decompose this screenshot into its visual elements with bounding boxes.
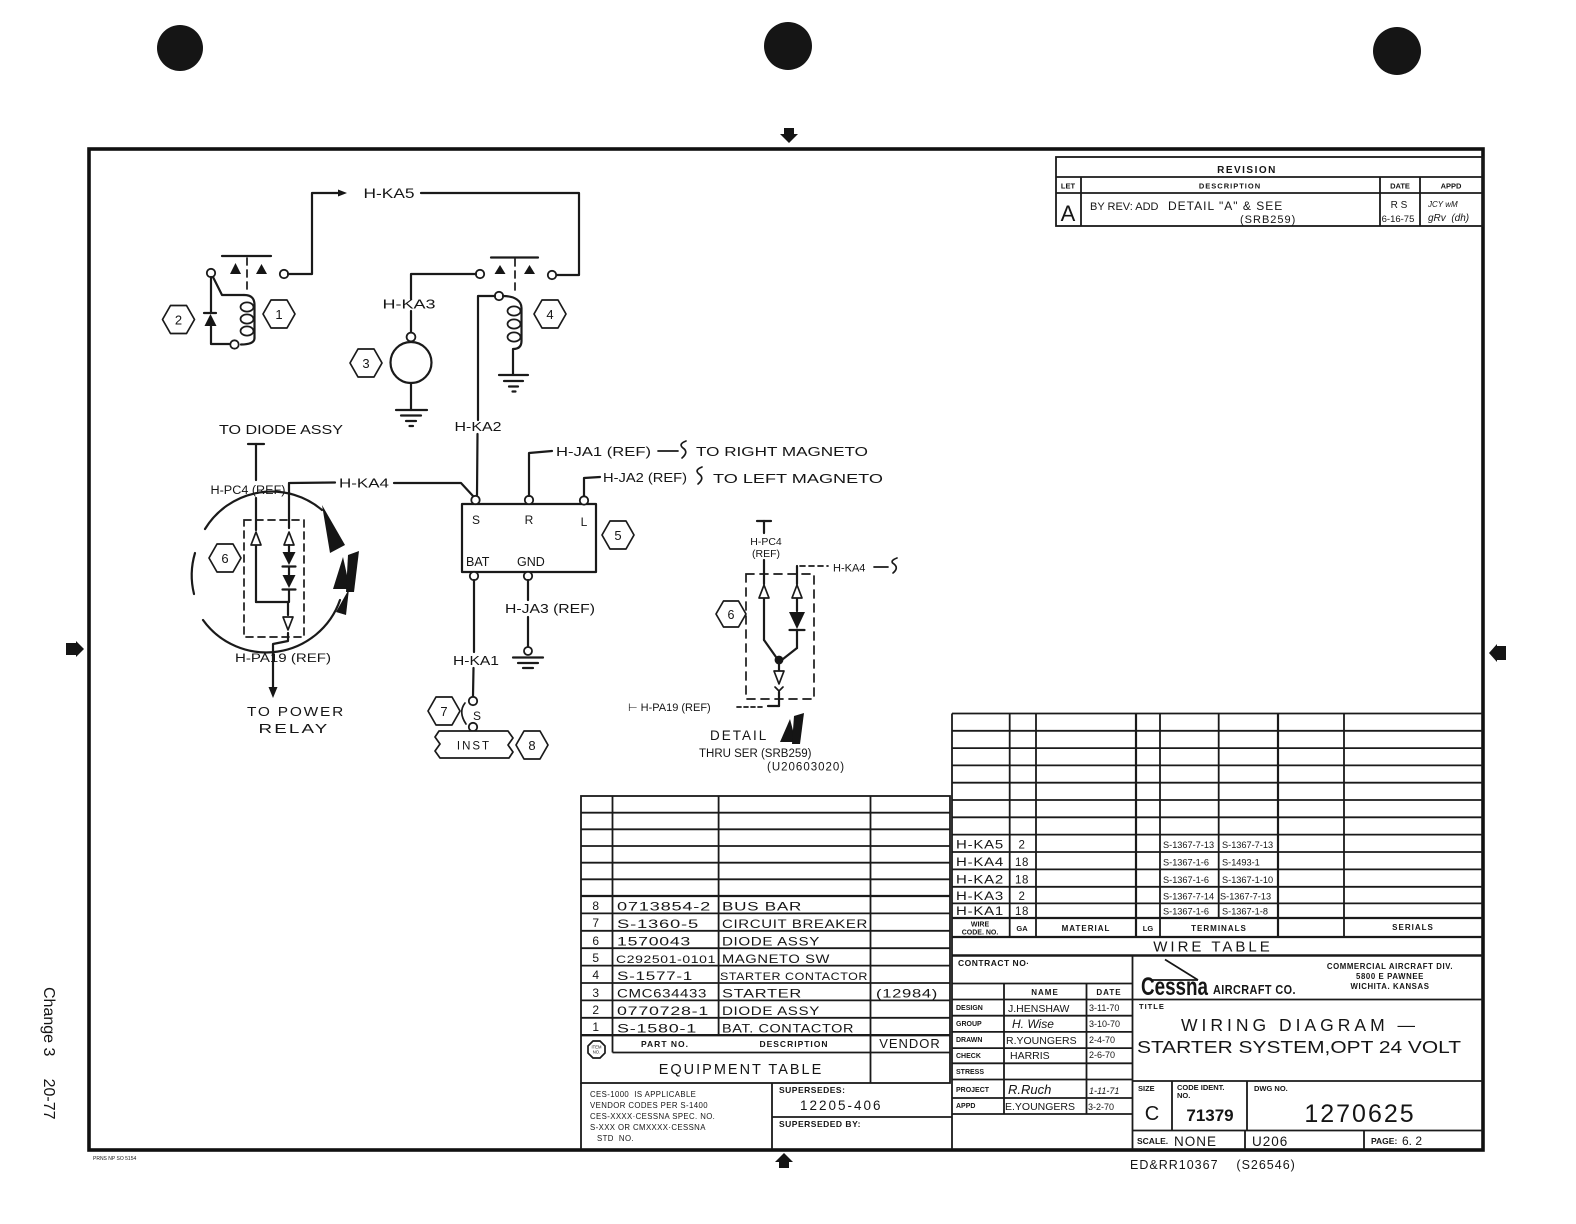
battery contactor K1 left contact (230, 263, 241, 274)
equipment table grid (581, 796, 950, 1083)
node: K2 left terminal (476, 270, 484, 278)
svg-text:18: 18 (1015, 874, 1029, 886)
starter contactor K2 frame bar (491, 256, 538, 258)
svg-text:AIRCRAFT CO.: AIRCRAFT CO. (1213, 983, 1296, 997)
svg-text:GND: GND (517, 555, 545, 569)
wire diode to coil bottom (211, 326, 229, 344)
junction node detail A (775, 656, 784, 665)
starter contactor K2 coil (503, 296, 522, 374)
svg-text:8: 8 (528, 738, 535, 753)
svg-text:GROUP: GROUP (956, 1021, 982, 1028)
svg-text:A: A (1061, 201, 1076, 226)
wire H-KA2 from K2 coil to magneto switch S (477, 296, 495, 495)
alignment arrow left edge (66, 641, 84, 657)
svg-text:S-1580-1: S-1580-1 (617, 1021, 697, 1035)
node: K2 coil top terminal (495, 292, 503, 300)
svg-text:SIZE: SIZE (1138, 1084, 1155, 1093)
svg-text:H-PC4: H-PC4 (750, 536, 782, 548)
svg-text:H-KA4: H-KA4 (833, 563, 865, 575)
svg-text:CIRCUIT BREAKER: CIRCUIT BREAKER (722, 917, 868, 931)
diode assy dashed boundary (244, 520, 304, 637)
registration punch dot center (764, 22, 812, 70)
balloon 1 (263, 300, 295, 328)
svg-text:DIODE ASSY: DIODE ASSY (722, 934, 820, 948)
svg-text:NO.: NO. (1177, 1091, 1190, 1100)
svg-text:7: 7 (592, 916, 599, 930)
svg-text:DESCRIPTION: DESCRIPTION (759, 1039, 828, 1049)
battery contactor K1 right contact (256, 264, 267, 274)
svg-text:DESCRIPTION: DESCRIPTION (1199, 182, 1261, 191)
svg-text:TO POWER: TO POWER (247, 704, 345, 719)
svg-text:HARRIS: HARRIS (1010, 1050, 1050, 1062)
svg-text:H-KA4: H-KA4 (956, 857, 1004, 869)
detail A dashed boundary (746, 574, 814, 699)
label DETAIL with flag A (710, 713, 804, 744)
svg-text:2: 2 (175, 313, 182, 328)
vendor codes note block (581, 1083, 772, 1149)
svg-text:5800 E PAWNEE: 5800 E PAWNEE (1356, 972, 1424, 981)
diode assy CR upper (283, 545, 296, 567)
registration punch dot left (157, 25, 203, 71)
svg-text:STRESS: STRESS (956, 1069, 984, 1076)
sheet border frame (89, 149, 1483, 1150)
svg-text:LET: LET (1061, 182, 1076, 191)
svg-text:H-KA3: H-KA3 (956, 891, 1004, 903)
svg-text:(12984): (12984) (876, 987, 938, 1001)
svg-text:PART NO.: PART NO. (641, 1039, 689, 1049)
node: magneto switch GND terminal (524, 572, 532, 580)
battery contactor K1 coil (213, 277, 255, 345)
svg-text:MATERIAL: MATERIAL (1062, 924, 1111, 933)
open arrow up detail right (792, 585, 802, 598)
svg-text:18: 18 (1015, 906, 1029, 918)
svg-text:SUPERSEDED BY:: SUPERSEDED BY: (779, 1119, 861, 1129)
diode CR1 (item 2) (205, 314, 217, 326)
svg-text:BUS BAR: BUS BAR (722, 900, 802, 914)
svg-text:2-4-70: 2-4-70 (1089, 1035, 1115, 1045)
svg-text:0713854-2: 0713854-2 (617, 900, 711, 914)
svg-text:H-KA5: H-KA5 (364, 186, 415, 201)
svg-text:LG: LG (1143, 924, 1154, 933)
node: starter top terminal (407, 333, 416, 342)
detail A H-PC4 stub tee (757, 521, 771, 533)
detail A left branch wire (764, 560, 776, 657)
svg-text:DETAIL: DETAIL (710, 728, 768, 743)
svg-text:6. 2: 6. 2 (1402, 1134, 1422, 1148)
svg-text:4: 4 (592, 968, 599, 982)
svg-text:S-1367-7-13: S-1367-7-13 (1220, 892, 1271, 902)
svg-text:1: 1 (275, 307, 282, 322)
ground symbol at H-JA3 (513, 647, 543, 668)
wire diode to bottom rail (288, 590, 290, 602)
svg-text:VENDOR: VENDOR (879, 1036, 941, 1051)
detail A output with open arrow down (768, 664, 784, 706)
svg-text:SERIALS: SERIALS (1392, 923, 1434, 932)
svg-text:71379: 71379 (1186, 1106, 1233, 1125)
svg-text:5: 5 (614, 528, 621, 543)
svg-text:COMMERCIAL AIRCRAFT DIV.: COMMERCIAL AIRCRAFT DIV. (1327, 962, 1453, 971)
open arrow up on left branch (251, 532, 261, 545)
balloon 7 (428, 697, 460, 725)
svg-text:CODE. NO.: CODE. NO. (962, 930, 999, 937)
svg-text:6: 6 (221, 551, 228, 566)
svg-text:3: 3 (362, 356, 369, 371)
detail A diode CR (783, 612, 805, 659)
svg-text:WICHITA. KANSAS: WICHITA. KANSAS (1350, 982, 1429, 991)
wire to diode assy off-page tee (248, 444, 264, 480)
balloon 8 (516, 731, 548, 759)
svg-text:JCY wM: JCY wM (1427, 200, 1458, 209)
equipment table rows text (592, 899, 938, 1035)
open arrow down at assy output (283, 602, 293, 630)
svg-text:NAME: NAME (1031, 988, 1059, 997)
magneto switch box U1 (462, 504, 596, 572)
svg-text:(REF): (REF) (752, 548, 780, 560)
margin page number text (40, 987, 57, 1120)
svg-text:1: 1 (592, 1020, 599, 1034)
svg-text:(SRB259): (SRB259) (1240, 214, 1296, 226)
starter contactor K2 right contact (524, 265, 535, 274)
svg-text:H-KA5: H-KA5 (956, 840, 1004, 852)
svg-text:MAGNETO SW: MAGNETO SW (722, 952, 830, 966)
svg-text:VENDOR CODES PER S-1400: VENDOR CODES PER S-1400 (590, 1101, 708, 1110)
node: magneto switch L terminal (580, 496, 588, 504)
svg-text:WIRE TABLE: WIRE TABLE (1153, 939, 1272, 956)
svg-text:S-XXX OR CMXXXX·CESSNA: S-XXX OR CMXXXX·CESSNA (590, 1123, 706, 1132)
svg-text:H. Wise: H. Wise (1012, 1017, 1054, 1031)
wire H-JA3 from GND to ground (527, 580, 529, 647)
svg-text:H-JA3 (REF): H-JA3 (REF) (505, 602, 595, 616)
svg-text:APPD: APPD (1441, 182, 1462, 191)
svg-text:C292501-0101: C292501-0101 (616, 954, 716, 966)
svg-text:1-11-71: 1-11-71 (1089, 1086, 1119, 1096)
svg-text:H-KA1: H-KA1 (956, 906, 1004, 918)
cessna company block (1133, 960, 1484, 1002)
wire K1 left leg through diode (210, 277, 212, 313)
label H-KA4 detail stub (800, 558, 897, 575)
equipment table headers (641, 1036, 941, 1078)
svg-text:BY REV: ADD: BY REV: ADD (1090, 201, 1159, 213)
svg-text:DETAIL "A" & SEE: DETAIL "A" & SEE (1168, 199, 1283, 213)
node: magneto switch R terminal (525, 496, 533, 504)
svg-text:H-JA1 (REF): H-JA1 (REF) (556, 445, 651, 459)
alignment arrow right edge (1489, 644, 1506, 662)
svg-text:S-1367-1-10: S-1367-1-10 (1222, 875, 1273, 885)
svg-text:H-KA2: H-KA2 (956, 874, 1004, 886)
svg-text:CONTRACT NO·: CONTRACT NO· (958, 958, 1030, 968)
wire H-KA1 from BAT to breaker (473, 580, 474, 696)
svg-text:ED&RR10367 (S26546): ED&RR10367 (S26546) (1130, 1158, 1296, 1172)
size code dwg row (1133, 1081, 1484, 1131)
svg-text:CMC634433: CMC634433 (617, 987, 707, 1001)
label TO POWER RELAY (247, 704, 345, 736)
svg-text:J.HENSHAW: J.HENSHAW (1008, 1003, 1070, 1015)
svg-text:PROJECT: PROJECT (956, 1087, 990, 1094)
svg-text:RELAY: RELAY (259, 721, 330, 736)
svg-text:1270625: 1270625 (1304, 1100, 1415, 1128)
svg-text:Change 3 20-77: Change 3 20-77 (40, 987, 57, 1120)
svg-text:R S: R S (1391, 200, 1408, 211)
svg-text:C: C (1145, 1103, 1159, 1125)
svg-text:0770728-1: 0770728-1 (617, 1004, 709, 1018)
ground symbol at starter (396, 410, 427, 426)
wire to power relay (273, 633, 288, 688)
svg-text:8: 8 (592, 899, 599, 913)
svg-text:1570043: 1570043 (617, 934, 691, 948)
svg-text:3: 3 (592, 986, 599, 1000)
alignment arrow top center (780, 128, 798, 143)
node: magneto switch S terminal (471, 496, 479, 504)
svg-text:PAGE:: PAGE: (1371, 1136, 1397, 1146)
starter contactor K2 actuator dashed link (514, 259, 516, 294)
svg-text:H-KA4: H-KA4 (339, 477, 389, 491)
svg-text:S-1367-1-8: S-1367-1-8 (1222, 907, 1268, 917)
detail circle around diode assy (192, 492, 340, 653)
svg-text:TO DIODE ASSY: TO DIODE ASSY (219, 423, 344, 437)
svg-text:DATE: DATE (1390, 182, 1410, 191)
svg-text:NONE: NONE (1174, 1134, 1217, 1149)
svg-text:H-PA19 (REF): H-PA19 (REF) (235, 653, 331, 665)
svg-text:DATE: DATE (1096, 988, 1121, 997)
starter motor B1 (391, 342, 432, 383)
svg-text:CES-1000 IS APPLICABLE: CES-1000 IS APPLICABLE (590, 1090, 696, 1099)
svg-text:S: S (473, 709, 481, 723)
svg-text:APPD: APPD (956, 1103, 975, 1110)
wire table data rows (956, 840, 1029, 919)
balloon 6 (209, 544, 241, 572)
svg-text:H-KA3: H-KA3 (383, 298, 436, 312)
label H-PC4 (REF) detail (750, 536, 782, 560)
svg-text:H-JA2 (REF): H-JA2 (REF) (603, 471, 687, 485)
arrowhead to power relay (269, 687, 278, 698)
node: K1 right terminal (280, 270, 288, 278)
node: K2 right terminal (548, 271, 556, 279)
svg-text:REVISION: REVISION (1217, 165, 1277, 176)
svg-text:SCALE.: SCALE. (1137, 1136, 1168, 1146)
wire H-KA3 from K2 to starter (411, 274, 476, 333)
svg-text:S-1367-1-6: S-1367-1-6 (1163, 907, 1209, 917)
svg-text:STARTER CONTACTOR: STARTER CONTACTOR (720, 971, 868, 983)
svg-text:DRAWN: DRAWN (956, 1037, 982, 1044)
wire H-JA2 from L terminal (584, 477, 600, 496)
svg-text:gRv (dh): gRv (dh) (1428, 213, 1469, 224)
svg-text:L: L (581, 515, 588, 529)
battery contactor K1 actuator dashed link (246, 258, 248, 293)
svg-text:S-1367-7-13: S-1367-7-13 (1222, 840, 1273, 850)
balloon 4 (534, 300, 566, 328)
svg-text:S-1360-5: S-1360-5 (617, 917, 699, 931)
wire table column headers (962, 922, 1434, 937)
svg-text:7: 7 (440, 704, 447, 719)
node: K1 coil bottom terminal (230, 340, 238, 348)
wire H-KA4 from diode assy to magneto switch S (290, 483, 473, 497)
circuit breaker S (item 7) (462, 697, 481, 731)
svg-text:PRNS NP SO 5154: PRNS NP SO 5154 (93, 1156, 136, 1162)
svg-text:R.Ruch: R.Ruch (1008, 1082, 1051, 1097)
svg-text:S-1367-7-14: S-1367-7-14 (1163, 892, 1214, 902)
signature block rows (952, 1003, 1133, 1114)
svg-text:INST: INST (457, 741, 491, 753)
svg-text:6-16-75: 6-16-75 (1382, 214, 1415, 225)
battery contactor K1 frame bar (222, 255, 271, 257)
svg-text:TERMINALS: TERMINALS (1191, 924, 1247, 933)
svg-text:S-1367-1-6: S-1367-1-6 (1163, 858, 1209, 868)
name date header row (952, 984, 1133, 1115)
registration punch dot right (1373, 27, 1421, 75)
svg-text:3-10-70: 3-10-70 (1089, 1019, 1120, 1029)
svg-text:12205-406: 12205-406 (800, 1098, 883, 1113)
svg-text:DIODE ASSY: DIODE ASSY (722, 1004, 820, 1018)
detail A flag on circle (333, 551, 359, 592)
title block (1137, 1002, 1461, 1057)
svg-text:NO.: NO. (593, 1050, 600, 1055)
node: K1 left terminal (207, 269, 215, 277)
svg-text:E.YOUNGERS: E.YOUNGERS (1005, 1101, 1075, 1113)
detail circle arrowhead upper (322, 505, 345, 553)
detail A right branch wire (796, 566, 798, 611)
svg-text:6: 6 (592, 934, 599, 948)
svg-text:Cessna: Cessna (1141, 973, 1209, 1001)
wire H-KA5 arrowhead (338, 190, 347, 197)
svg-text:TO LEFT MAGNETO: TO LEFT MAGNETO (713, 472, 883, 486)
svg-text:H-KA2: H-KA2 (455, 420, 502, 434)
svg-text:EQUIPMENT TABLE: EQUIPMENT TABLE (659, 1062, 824, 1078)
scale row (1133, 1131, 1484, 1150)
svg-text:2: 2 (1019, 891, 1026, 903)
open arrow up detail left (759, 585, 769, 598)
svg-text:3-2-70: 3-2-70 (1088, 1102, 1114, 1112)
svg-text:STARTER: STARTER (722, 987, 802, 1001)
svg-text:TITLE: TITLE (1139, 1002, 1165, 1011)
svg-text:DWG NO.: DWG NO. (1254, 1084, 1288, 1093)
wire diode assy right branch upper (288, 483, 290, 528)
svg-text:WIRING DIAGRAM —: WIRING DIAGRAM — (1181, 1015, 1419, 1035)
svg-text:GA: GA (1016, 924, 1028, 933)
svg-text:SUPERSEDES:: SUPERSEDES: (779, 1085, 845, 1095)
diode CR1 (item 2) cathode bar (204, 312, 216, 314)
svg-text:2: 2 (592, 1003, 599, 1017)
svg-text:H-KA1: H-KA1 (453, 654, 499, 668)
diode assy CR lower (283, 567, 296, 590)
svg-text:U206: U206 (1252, 1134, 1288, 1149)
wire starter to ground (410, 383, 412, 410)
svg-text:THRU SER (SRB259): THRU SER (SRB259) (699, 748, 812, 760)
svg-text:STD NO.: STD NO. (597, 1134, 634, 1143)
supersedes block (772, 1085, 952, 1129)
node: magneto switch BAT terminal (470, 572, 478, 580)
svg-text:18: 18 (1015, 857, 1029, 869)
svg-text:BAT. CONTACTOR: BAT. CONTACTOR (722, 1021, 854, 1035)
contract no cell (958, 956, 1133, 1150)
svg-text:WIRE: WIRE (971, 922, 990, 929)
INST bus banner (435, 731, 513, 758)
svg-text:(U20603020): (U20603020) (767, 762, 845, 774)
wire H-KA5 from K1 to K2 (288, 193, 339, 274)
svg-text:4: 4 (546, 307, 553, 322)
svg-text:TO RIGHT MAGNETO: TO RIGHT MAGNETO (696, 445, 868, 459)
svg-text:STARTER SYSTEM,OPT 24 VOLT: STARTER SYSTEM,OPT 24 VOLT (1137, 1037, 1461, 1057)
starter contactor K2 left contact (495, 265, 506, 274)
svg-text:5: 5 (592, 951, 599, 965)
svg-text:3-11-70: 3-11-70 (1089, 1003, 1119, 1013)
svg-text:⊢ H-PA19 (REF): ⊢ H-PA19 (REF) (628, 702, 711, 714)
balloon 3 (350, 349, 382, 377)
balloon 6 detail (716, 601, 746, 627)
svg-text:6: 6 (728, 608, 735, 622)
svg-text:CES-XXXX·CESSNA SPEC. NO.: CES-XXXX·CESSNA SPEC. NO. (590, 1112, 715, 1121)
svg-text:BAT: BAT (466, 555, 490, 569)
break squiggle to left magneto (697, 467, 702, 484)
svg-text:DESIGN: DESIGN (956, 1005, 983, 1012)
svg-text:CHECK: CHECK (956, 1053, 981, 1060)
svg-text:S-1577-1: S-1577-1 (617, 969, 693, 983)
open arrow up on right branch (284, 532, 294, 545)
svg-text:S-1367-1-6: S-1367-1-6 (1163, 875, 1209, 885)
wire H-JA1 from R terminal (529, 451, 552, 496)
wire table grid (952, 714, 1483, 1150)
balloon 5 (602, 521, 634, 549)
balloon 2 (163, 306, 195, 334)
revision table (1056, 157, 1483, 226)
svg-text:S-1367-7-13: S-1367-7-13 (1163, 840, 1214, 850)
svg-text:2-6-70: 2-6-70 (1089, 1050, 1115, 1060)
detail circle arrowhead lower (336, 589, 349, 615)
ground symbol at K2 coil (499, 375, 528, 392)
item no octagon icon (588, 1041, 605, 1058)
break squiggle to right magneto (658, 441, 686, 458)
label H-PA19 (REF) detail leader (628, 702, 764, 714)
alignment arrow bottom center (775, 1153, 793, 1168)
svg-text:2: 2 (1019, 840, 1026, 852)
svg-text:S-1493-1: S-1493-1 (1222, 858, 1260, 868)
svg-text:S: S (472, 513, 480, 527)
wire H-KA5 right segment into starter contactor (421, 193, 579, 275)
wire diode assy left branch (256, 498, 288, 602)
svg-text:R.YOUNGERS: R.YOUNGERS (1006, 1035, 1077, 1047)
svg-text:R: R (525, 513, 534, 527)
